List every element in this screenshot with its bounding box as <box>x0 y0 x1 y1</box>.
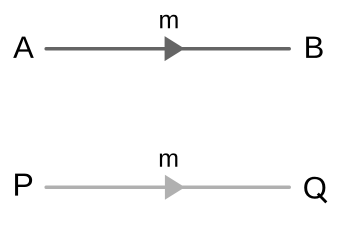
label m (bottom) <box>160 153 178 166</box>
arrow on AB (midpoint marker) <box>165 36 185 61</box>
node P <box>15 174 32 196</box>
node A <box>13 37 34 58</box>
node Q (O ring + straight tail) <box>304 177 326 203</box>
wire segment AB <box>46 47 289 51</box>
label m (top) <box>160 15 178 28</box>
wire segment PQ <box>46 185 289 189</box>
node B <box>306 37 322 58</box>
arrow on PQ (midpoint marker) <box>165 175 185 200</box>
